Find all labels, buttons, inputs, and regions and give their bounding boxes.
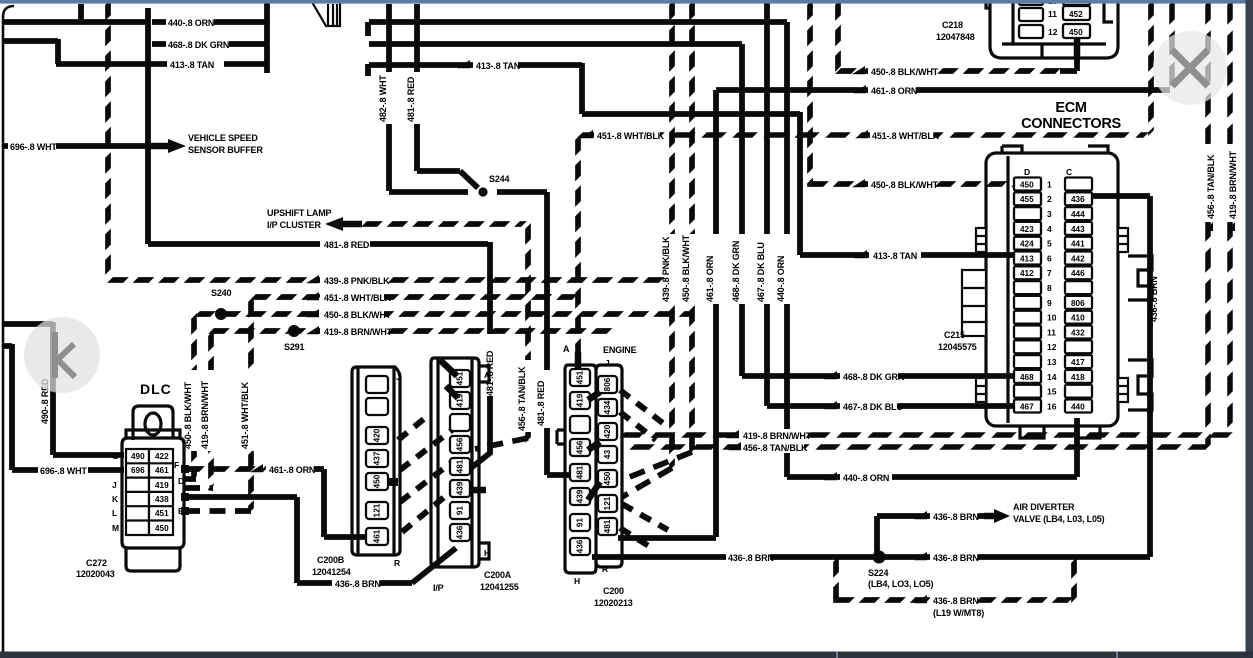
label 419-.8 BRN/WHT vertical right	[1224, 144, 1236, 222]
svg-text:SENSOR BUFFER: SENSOR BUFFER	[188, 145, 263, 155]
svg-text:91: 91	[456, 506, 465, 516]
node S244 dot	[478, 187, 487, 196]
svg-text:456: 456	[576, 440, 585, 454]
pin row 13 C215	[1014, 355, 1041, 368]
wire 440 ORN top row	[152, 19, 268, 25]
pin row 3 C215	[1014, 207, 1041, 220]
svg-text:451-.8 WHT/BLK: 451-.8 WHT/BLK	[872, 131, 940, 141]
svg-text:12: 12	[1048, 27, 1058, 37]
svg-text:15: 15	[1047, 387, 1057, 397]
svg-text:121: 121	[603, 496, 612, 510]
svg-text:M: M	[112, 523, 119, 533]
svg-text:R: R	[394, 558, 400, 568]
wire dashed row 419 S291	[211, 328, 615, 334]
wire 481 RED vertical	[414, 4, 420, 168]
svg-text:451-.8 WHT/BLK: 451-.8 WHT/BLK	[324, 293, 392, 303]
pin row 10 C215	[1014, 311, 1041, 324]
svg-text:419: 419	[576, 393, 585, 407]
node bus x267	[264, 3, 270, 73]
pins C218	[1019, 0, 1043, 5]
svg-text:450: 450	[155, 524, 169, 533]
svg-text:451-.8 WHT/BLK: 451-.8 WHT/BLK	[240, 381, 250, 449]
wire 468 DK GRN top right bus	[369, 44, 742, 376]
svg-text:R: R	[602, 564, 608, 574]
svg-text:461: 461	[373, 529, 382, 543]
wire dashed x108 from top	[105, 2, 111, 272]
svg-text:43: 43	[603, 450, 612, 460]
svg-text:12020043: 12020043	[76, 569, 115, 579]
node S291 dot	[288, 325, 300, 337]
svg-text:4: 4	[1047, 224, 1052, 234]
svg-text:I/P CLUSTER: I/P CLUSTER	[267, 220, 322, 230]
svg-text:VALVE (LB4, L03, L05): VALVE (LB4, L03, L05)	[1013, 514, 1105, 524]
svg-text:436-.8 BRN: 436-.8 BRN	[933, 596, 979, 606]
pin row 6 C215	[1014, 252, 1041, 265]
svg-text:451: 451	[155, 509, 169, 518]
wire stub C200 A pin	[575, 352, 582, 370]
svg-text:12020213: 12020213	[594, 598, 633, 608]
label 467-.8 DK BLU vertical	[761, 234, 773, 304]
svg-text:I/P: I/P	[433, 583, 444, 593]
svg-text:11: 11	[1048, 9, 1057, 19]
svg-text:467-.8 DK BLU: 467-.8 DK BLU	[843, 402, 903, 412]
svg-text:419: 419	[155, 481, 169, 490]
wire 450 BLK/WHT dashed row y184 to C215 D1	[807, 2, 813, 184]
svg-text:442: 442	[1071, 254, 1085, 263]
watermark circle k	[24, 317, 100, 393]
svg-text:3: 3	[1047, 209, 1052, 219]
wire vertical bus x148 to 481 RED row	[81, 4, 488, 244]
wire upshift dashed with arrow	[325, 217, 343, 231]
svg-text:J: J	[396, 372, 401, 382]
wire 451 WHT/BLK dashed row y135	[580, 132, 1146, 138]
svg-text:413-.8 TAN: 413-.8 TAN	[170, 60, 214, 70]
svg-text:S244: S244	[489, 174, 509, 184]
svg-text:436-.8 BRN: 436-.8 BRN	[933, 553, 979, 563]
svg-text:439-.8 PNK/BLK: 439-.8 PNK/BLK	[661, 236, 671, 302]
wire dashes between C200B and C200A	[398, 414, 452, 532]
connector C200 ENGINE	[557, 344, 637, 608]
pin tab C200B 450	[388, 478, 398, 486]
svg-text:A: A	[563, 344, 570, 354]
label 450-.8 BLK/WHT vertical	[686, 234, 698, 304]
svg-text:461-.8 ORN: 461-.8 ORN	[269, 465, 315, 475]
svg-text:451-.8 WHT/BLK: 451-.8 WHT/BLK	[597, 131, 665, 141]
svg-text:439: 439	[576, 489, 585, 503]
pins C200 left	[570, 369, 590, 555]
right slate strip	[1246, 0, 1253, 658]
svg-text:419-.8 BRN/WHT: 419-.8 BRN/WHT	[200, 380, 210, 449]
label 481-.8 RED vertical x490	[484, 334, 496, 396]
svg-text:ECM: ECM	[1055, 100, 1087, 116]
bottom slate bar	[0, 652, 1253, 658]
svg-text:D: D	[1024, 167, 1030, 177]
node S224 dot	[873, 551, 886, 564]
wire dashed S240 bundle row 451	[253, 294, 578, 300]
wire 436 BRN from DLC pin C	[186, 497, 456, 583]
wire stubs between C200 columns	[588, 392, 600, 500]
svg-text:420: 420	[373, 428, 382, 442]
svg-text:11: 11	[1047, 327, 1056, 337]
wire dashed verticals to DLC	[191, 316, 197, 479]
svg-text:446: 446	[1071, 269, 1085, 278]
svg-text:440-.8 ORN: 440-.8 ORN	[843, 473, 889, 483]
pins C200 right	[598, 376, 617, 535]
node S240 dot	[215, 308, 227, 320]
wire S244 to 481 RED right vertical	[497, 192, 574, 475]
svg-text:422: 422	[155, 452, 169, 461]
svg-text:468-.8 DK GRN: 468-.8 DK GRN	[168, 40, 229, 50]
svg-text:444: 444	[1071, 210, 1085, 219]
label 440-.8 ORN vertical	[781, 234, 793, 304]
svg-text:14: 14	[1047, 372, 1057, 382]
svg-text:C: C	[1066, 167, 1072, 177]
connector C218	[936, 0, 1118, 58]
wire dashed vertical 439 x672	[669, 2, 675, 468]
svg-text:S224: S224	[868, 568, 888, 578]
wire 436 BRN dashed loop L19	[833, 559, 839, 600]
svg-text:456-.8 TAN/BLK: 456-.8 TAN/BLK	[743, 443, 808, 453]
svg-text:(LB4, LO3, LO5): (LB4, LO3, LO5)	[868, 579, 933, 589]
label 456-.8 TAN/BLK vertical right	[1202, 144, 1214, 222]
svg-text:440-.8 ORN: 440-.8 ORN	[168, 18, 214, 28]
brackets C215 right	[1128, 256, 1152, 410]
top blue bar	[0, 0, 1253, 4]
svg-text:450-.8 BLK/WHT: 450-.8 BLK/WHT	[871, 67, 939, 77]
svg-text:450-.8 BLK/WHT: 450-.8 BLK/WHT	[871, 180, 939, 190]
svg-text:468-.8 DK GRN: 468-.8 DK GRN	[843, 372, 904, 382]
connector C200B	[312, 367, 401, 577]
svg-text:8: 8	[1047, 283, 1052, 293]
label 451-.8 WHT/BLK right	[855, 130, 868, 138]
wire 440 ORN top right bus	[369, 22, 787, 477]
svg-text:419-.8 BRN/WHT: 419-.8 BRN/WHT	[1228, 150, 1238, 219]
label 439-.8 PNK/BLK	[320, 274, 384, 286]
wire 461 ORN row from DLC	[186, 466, 266, 472]
svg-text:12047848: 12047848	[936, 32, 975, 42]
wire C218 450 stub	[1074, 38, 1081, 58]
svg-text:481-.8 RED: 481-.8 RED	[536, 380, 546, 426]
pin row 7 C215	[1014, 266, 1041, 279]
svg-text:436-.8 BRN: 436-.8 BRN	[933, 512, 979, 522]
pin grid DLC	[126, 449, 173, 535]
svg-text:451: 451	[576, 370, 585, 384]
svg-text:1: 1	[1047, 179, 1052, 189]
pin row 1 C215	[1014, 178, 1041, 191]
label 482-.8 WHT vertical	[383, 72, 395, 124]
svg-text:VEHICLE SPEED: VEHICLE SPEED	[188, 133, 258, 143]
svg-text:UPSHIFT LAMP: UPSHIFT LAMP	[267, 208, 332, 218]
svg-text:481: 481	[603, 519, 612, 533]
wire 482 WHT vertical	[386, 4, 392, 191]
svg-text:443: 443	[1071, 225, 1085, 234]
wire top bus y22 left	[2, 19, 148, 25]
svg-text:413-.8 TAN: 413-.8 TAN	[873, 251, 917, 261]
svg-text:12041255: 12041255	[480, 582, 519, 592]
label 451-.8 WHT/BLK vertical	[245, 370, 257, 451]
svg-text:ENGINE: ENGINE	[603, 345, 637, 355]
svg-text:696-.8 WHT: 696-.8 WHT	[40, 466, 87, 476]
svg-text:S240: S240	[211, 288, 231, 298]
wire dashed 456 TAN vertical x528	[525, 226, 531, 440]
pin row 14 C215	[1014, 370, 1041, 383]
label 481-.8 RED vertical	[411, 72, 423, 124]
svg-text:461: 461	[155, 466, 169, 475]
wire dashed vertical 450 x692	[689, 2, 695, 452]
pin row 8 C215	[1014, 281, 1041, 294]
svg-text:481-.8 RED: 481-.8 RED	[406, 76, 416, 122]
svg-text:452: 452	[1069, 10, 1083, 19]
svg-text:440: 440	[1071, 402, 1085, 411]
wire dashed row 450 S240	[197, 311, 692, 317]
svg-text:13: 13	[1047, 357, 1057, 367]
wire 413 TAN main path	[368, 22, 1016, 255]
wire 436 BRN bottom network	[618, 535, 716, 541]
wire 481 RED down to C200A	[471, 242, 490, 468]
label 439-.8 PNK/BLK vertical	[666, 234, 678, 304]
wire 461 ORN row y90	[716, 87, 1170, 93]
svg-text:450-.8 BLK/WHT: 450-.8 BLK/WHT	[183, 381, 193, 449]
svg-text:450: 450	[1069, 28, 1083, 37]
svg-text:C200A: C200A	[484, 570, 512, 580]
svg-text:436: 436	[1071, 195, 1085, 204]
svg-text:450: 450	[373, 474, 382, 488]
svg-text:12041254: 12041254	[312, 567, 351, 577]
svg-text:468: 468	[1020, 373, 1034, 382]
svg-text:424: 424	[1020, 240, 1034, 249]
svg-text:D: D	[178, 476, 184, 486]
svg-text:450-.8 BLK/WHT: 450-.8 BLK/WHT	[324, 310, 392, 320]
svg-text:450: 450	[603, 471, 612, 485]
svg-text:7: 7	[1047, 268, 1052, 278]
svg-text:9: 9	[1047, 298, 1052, 308]
svg-text:423: 423	[1020, 225, 1034, 234]
svg-text:F: F	[174, 460, 179, 470]
close button X	[1153, 31, 1227, 105]
pin row 11 C215	[1014, 326, 1041, 339]
pin row 9 C215	[1014, 296, 1041, 309]
svg-text:CONNECTORS: CONNECTORS	[1021, 116, 1121, 132]
connector C200A	[431, 358, 519, 593]
label 413-.8 TAN top	[473, 59, 518, 70]
svg-text:H: H	[574, 576, 580, 586]
svg-text:10: 10	[1047, 313, 1057, 323]
svg-text:456-.8 TAN/BLK: 456-.8 TAN/BLK	[517, 366, 527, 431]
svg-text:121: 121	[373, 503, 382, 517]
wire 468 row left	[152, 41, 268, 47]
wire diagonal dashes C200 to rows	[620, 390, 668, 548]
svg-text:467-.8 DK BLU: 467-.8 DK BLU	[756, 242, 766, 302]
wire 419 BRN/WHT dashed row y435	[622, 432, 1230, 438]
svg-text:6: 6	[1047, 253, 1052, 263]
svg-text:439-.8 PNK/BLK: 439-.8 PNK/BLK	[324, 276, 390, 286]
wire 440 ORN row y477	[787, 418, 1077, 477]
svg-text:419-.8 BRN/WHT: 419-.8 BRN/WHT	[743, 431, 812, 441]
svg-text:438: 438	[155, 495, 169, 504]
wire 468 DK GRN row y376	[742, 373, 1016, 379]
svg-text:(L19 W/MT8): (L19 W/MT8)	[933, 608, 984, 618]
svg-text:806: 806	[603, 377, 612, 391]
svg-text:AIR DIVERTER: AIR DIVERTER	[1013, 502, 1075, 512]
svg-text:K: K	[112, 494, 119, 504]
svg-text:481: 481	[576, 465, 585, 479]
svg-text:461-.8 ORN: 461-.8 ORN	[705, 256, 715, 302]
label 456-.8 TAN vertical	[522, 360, 534, 432]
svg-text:456: 456	[456, 437, 465, 451]
pins C200B	[366, 376, 388, 545]
funnel connector top	[312, 2, 340, 26]
svg-text:412: 412	[1020, 269, 1034, 278]
svg-text:91: 91	[576, 518, 585, 528]
svg-text:413-.8 TAN: 413-.8 TAN	[476, 61, 520, 71]
svg-text:420: 420	[603, 424, 612, 438]
svg-text:450-.8 BLK/WHT: 450-.8 BLK/WHT	[681, 234, 691, 302]
wire label arrow wedges	[250, 60, 927, 603]
svg-text:2: 2	[1047, 194, 1052, 204]
svg-text:456-.8 TAN/BLK: 456-.8 TAN/BLK	[1206, 154, 1216, 219]
svg-text:418: 418	[1071, 373, 1085, 382]
pin row 2 C215	[1014, 192, 1041, 205]
wire solid vertical 461 x716	[713, 90, 719, 537]
svg-text:413: 413	[1020, 254, 1034, 263]
svg-text:696-.8 WHT: 696-.8 WHT	[10, 142, 57, 152]
svg-text:436: 436	[576, 539, 585, 553]
wire S244 junction	[389, 166, 478, 192]
label 419-.8 BRN/WHT vertical	[205, 370, 217, 451]
wire dashed vertical right x1175	[1169, 2, 1175, 88]
wire staircase left y41	[2, 39, 167, 64]
svg-text:S291: S291	[284, 342, 304, 352]
svg-text:A: A	[484, 370, 490, 380]
wire 696 WHT top row with arrow	[2, 143, 150, 149]
wire 413 row left	[224, 61, 268, 67]
wire 436 BRN from ECM C2	[1092, 196, 1150, 557]
svg-text:419-.8 BRN/WHT: 419-.8 BRN/WHT	[324, 327, 393, 337]
svg-text:482-.8 WHT: 482-.8 WHT	[378, 75, 388, 122]
svg-text:J: J	[112, 480, 117, 490]
svg-text:16: 16	[1047, 401, 1057, 411]
svg-text:437: 437	[373, 451, 382, 465]
svg-text:450: 450	[1020, 180, 1034, 189]
svg-text:436-.8 BRN: 436-.8 BRN	[335, 579, 381, 589]
pin row 12 C215	[1014, 340, 1041, 353]
pins C200A	[450, 370, 470, 541]
svg-text:H: H	[484, 548, 490, 558]
svg-text:439: 439	[456, 481, 465, 495]
svg-text:436: 436	[456, 525, 465, 539]
svg-text:C215: C215	[944, 330, 965, 340]
pin tab C200A 439	[470, 487, 486, 494]
wire solid vertical 467 x767	[764, 2, 770, 406]
svg-text:C218: C218	[942, 20, 963, 30]
tabs C215 sides	[962, 228, 1128, 402]
svg-text:461-.8 ORN: 461-.8 ORN	[871, 86, 917, 96]
wire stubs into C200A top pins	[440, 360, 458, 398]
wire 696 WHT lower from left edge	[2, 344, 124, 470]
svg-text:441: 441	[1071, 240, 1085, 249]
svg-text:481-.8 RED: 481-.8 RED	[324, 240, 370, 250]
svg-text:696: 696	[131, 466, 145, 475]
svg-text:468-.8 DK GRN: 468-.8 DK GRN	[731, 241, 741, 302]
pin row 15 C215	[1014, 385, 1041, 398]
label 461-.8 ORN vertical	[710, 234, 722, 304]
left border line	[3, 6, 14, 17]
pin row 5 C215	[1014, 237, 1041, 250]
svg-text:C200: C200	[603, 586, 624, 596]
pin tabs DLC right	[181, 465, 189, 473]
connector DLC C272	[76, 381, 189, 579]
svg-text:440-.8 ORN: 440-.8 ORN	[776, 256, 786, 302]
pin row 4 C215	[1014, 222, 1041, 235]
svg-text:5: 5	[1047, 239, 1052, 249]
wire 456 TAN/BLK dashed row y447	[632, 444, 1208, 450]
wire 450 BLK/WHT dashed row y71 to C218	[835, 2, 841, 71]
svg-text:481: 481	[456, 459, 465, 473]
svg-text:432: 432	[1071, 328, 1085, 337]
svg-text:455: 455	[1020, 195, 1034, 204]
wire 436 BRN air diverter branch	[877, 516, 984, 555]
svg-text:G: G	[112, 451, 119, 461]
svg-text:L: L	[112, 508, 117, 518]
pin row 16 C215	[1014, 400, 1041, 413]
svg-text:434: 434	[603, 400, 612, 414]
svg-text:C272: C272	[86, 558, 107, 568]
connector C215	[938, 146, 1152, 438]
svg-text:12: 12	[1047, 342, 1057, 352]
svg-text:417: 417	[1071, 358, 1085, 367]
svg-text:C200B: C200B	[317, 555, 345, 565]
label 481-.8 RED	[320, 238, 370, 250]
svg-text:DLC: DLC	[140, 381, 172, 397]
label 450-.8 BLK/WHT vertical	[188, 370, 200, 451]
svg-text:410: 410	[1071, 314, 1085, 323]
svg-text:806: 806	[1071, 299, 1085, 308]
wire 490 RED from left edge	[2, 322, 124, 455]
wire 467 DK BLU row y406	[767, 403, 1016, 409]
label 413-.8 TAN right	[870, 249, 918, 260]
svg-text:467: 467	[1020, 402, 1034, 411]
label 468-.8 DK GRN vertical	[736, 234, 748, 304]
svg-text:436-.8 BRN: 436-.8 BRN	[728, 553, 774, 563]
svg-text:12045575: 12045575	[938, 342, 977, 352]
svg-text:490: 490	[131, 452, 145, 461]
label 481-.8 RED vertical right	[541, 370, 553, 428]
